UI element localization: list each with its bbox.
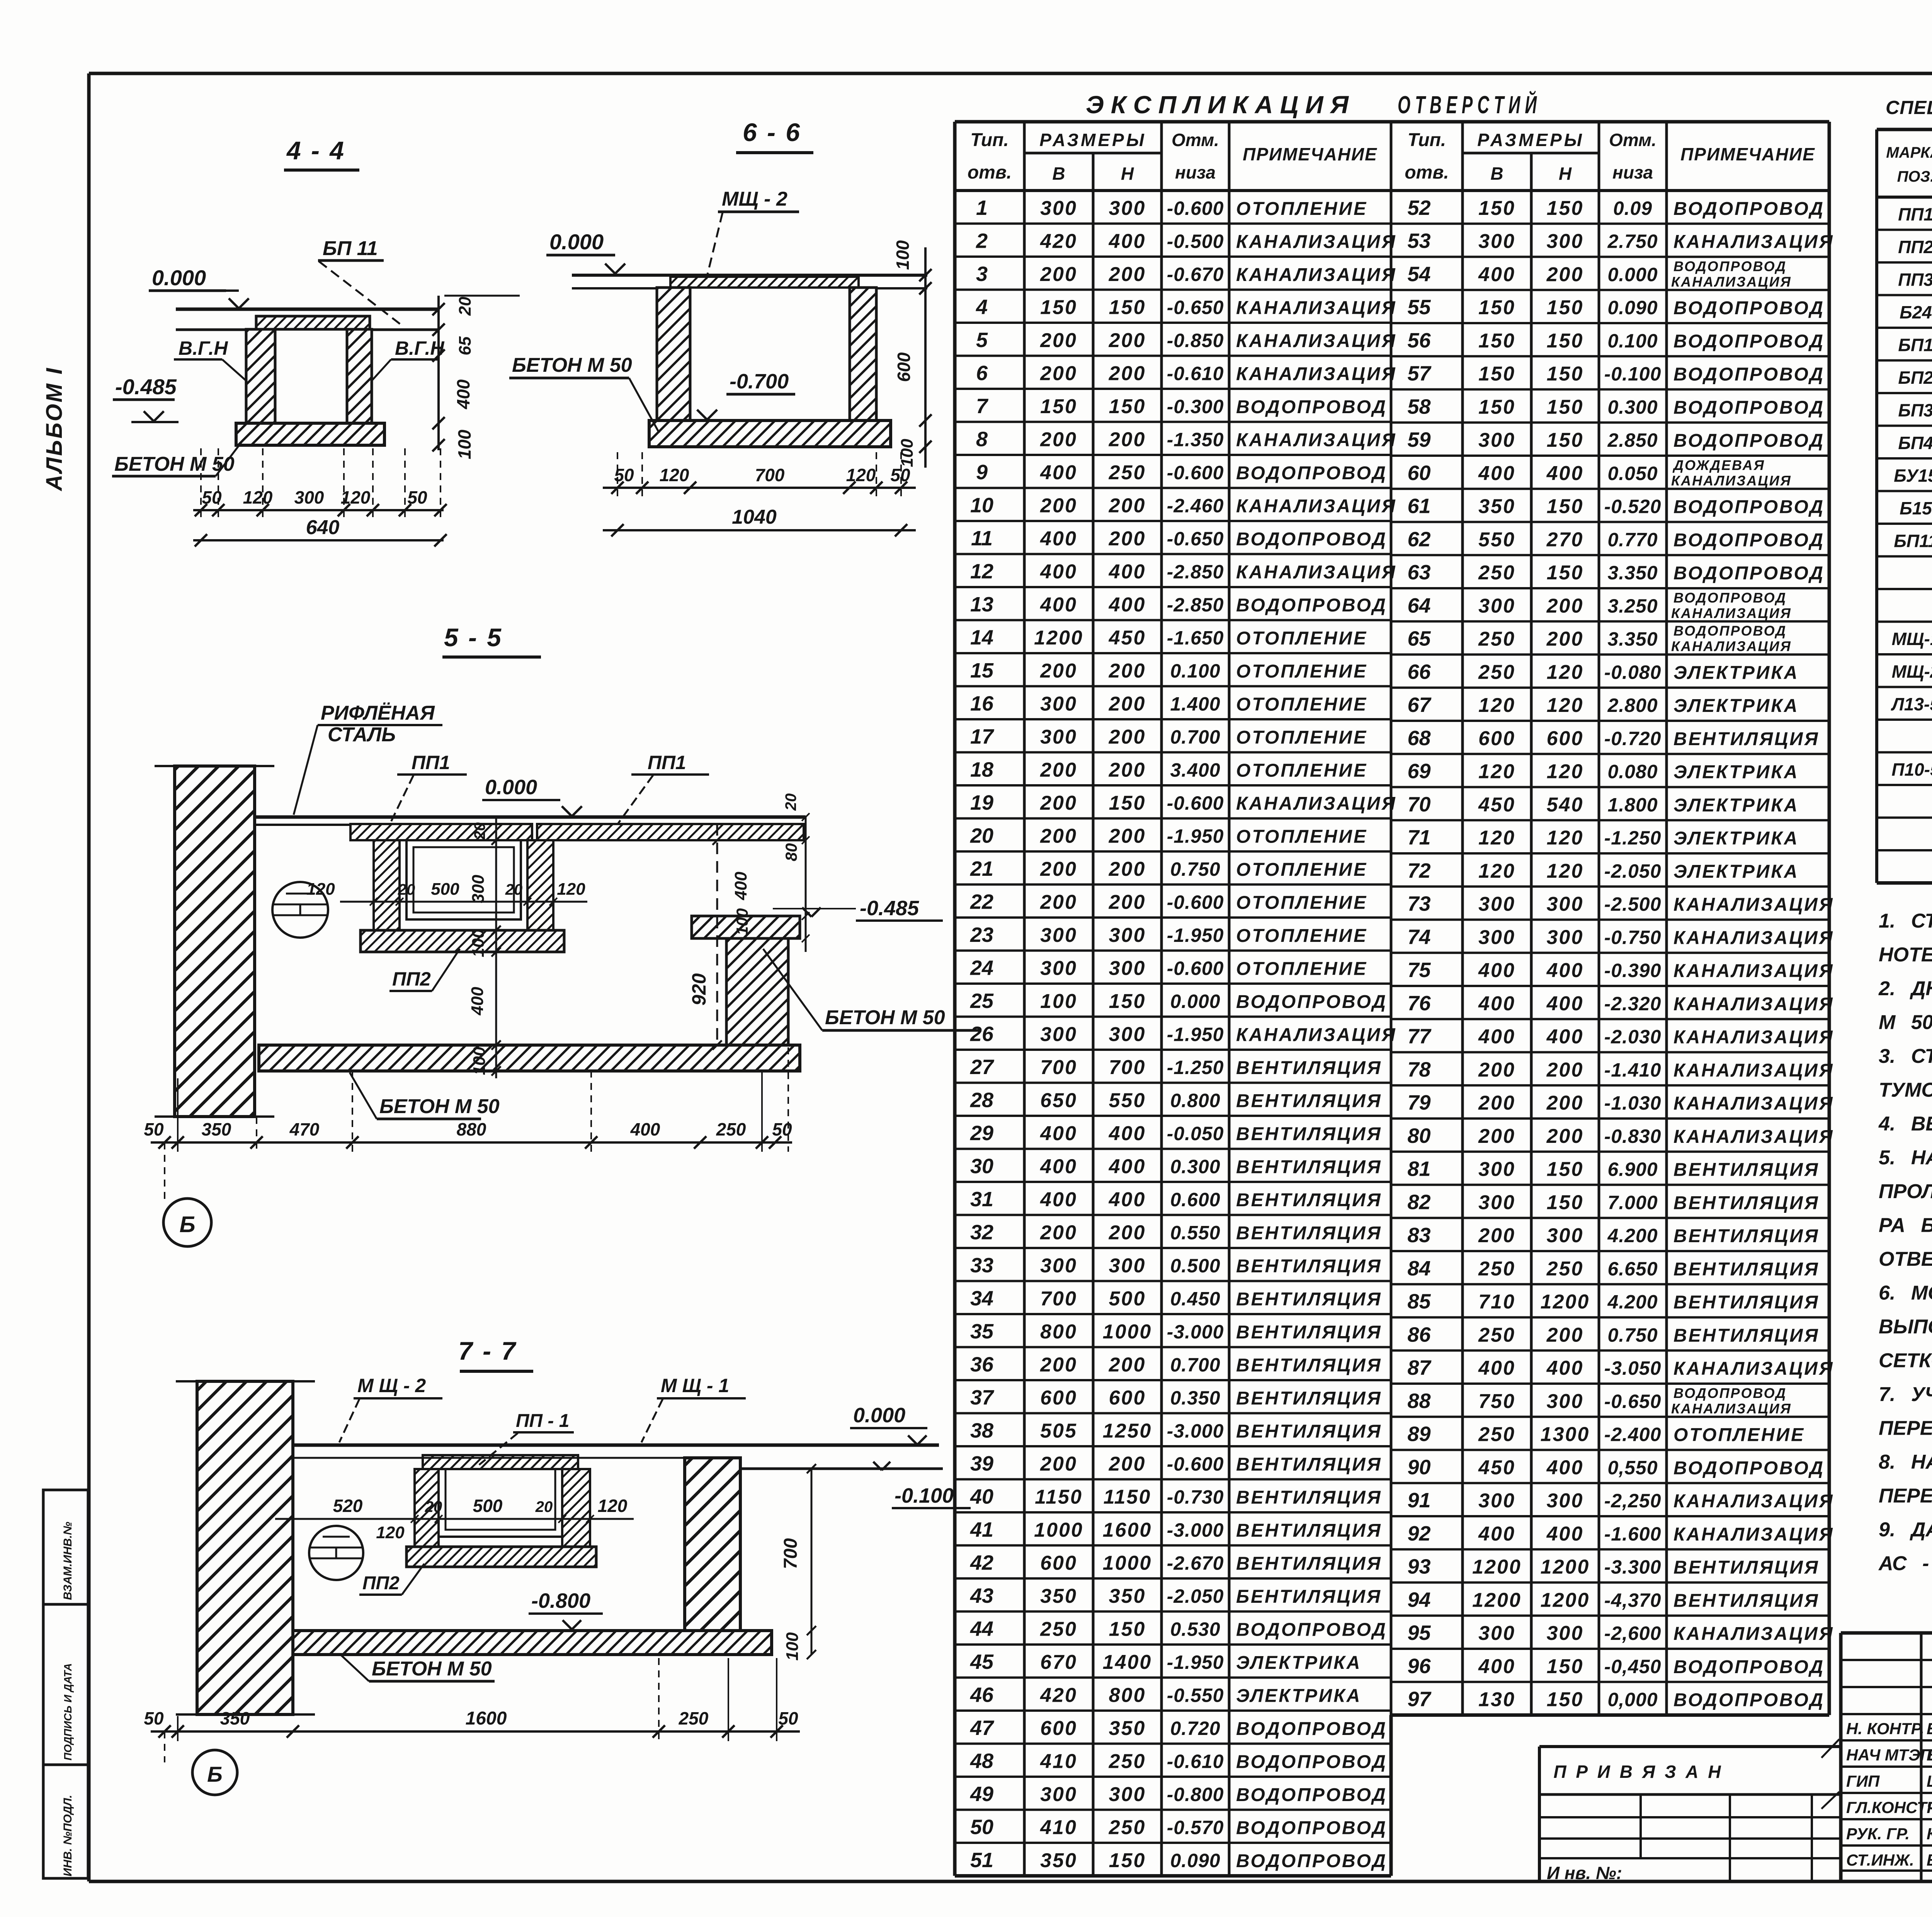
svg-text:ВЕНТИЛЯЦИЯ: ВЕНТИЛЯЦИЯ bbox=[1673, 1160, 1820, 1180]
svg-text:-2.460: -2.460 bbox=[1167, 495, 1224, 516]
svg-text:300: 300 bbox=[1478, 1490, 1515, 1512]
svg-text:1150: 1150 bbox=[1104, 1486, 1151, 1508]
svg-text:ВЕНТИЛЯЦИЯ: ВЕНТИЛЯЦИЯ bbox=[1673, 1259, 1820, 1280]
svg-text:РУК. ГР.: РУК. ГР. bbox=[1846, 1825, 1910, 1843]
svg-text:ПП2: ПП2 bbox=[1898, 237, 1932, 257]
svg-text:0.600: 0.600 bbox=[1170, 1189, 1220, 1210]
svg-text:400: 400 bbox=[1478, 1655, 1515, 1678]
svg-text:1600: 1600 bbox=[466, 1708, 507, 1729]
svg-text:50: 50 bbox=[144, 1119, 164, 1139]
svg-text:И нв. №:: И нв. №: bbox=[1547, 1863, 1622, 1883]
svg-text:0.530: 0.530 bbox=[1170, 1618, 1220, 1640]
svg-text:300: 300 bbox=[1040, 1023, 1077, 1045]
svg-text:ВОДОПРОВОД: ВОДОПРОВОД bbox=[1236, 1818, 1387, 1838]
svg-text:1200: 1200 bbox=[1541, 1589, 1590, 1611]
svg-text:33: 33 bbox=[970, 1254, 993, 1277]
section 7-7: channel lid ПП-1 (hatched) bbox=[423, 1455, 578, 1469]
svg-text:96: 96 bbox=[1407, 1655, 1431, 1678]
section 6-6: total dimension 1040 bbox=[603, 529, 916, 531]
svg-text:-0.600: -0.600 bbox=[1167, 1453, 1224, 1475]
svg-text:КАНАЛИЗАЦИЯ: КАНАЛИЗАЦИЯ bbox=[1671, 1401, 1792, 1416]
svg-text:ПП1: ПП1 bbox=[1898, 204, 1932, 224]
svg-text:14: 14 bbox=[970, 626, 993, 649]
svg-text:БЕГАНСКАЯ: БЕГАНСКАЯ bbox=[1927, 1746, 1932, 1764]
svg-text:-0.520: -0.520 bbox=[1604, 496, 1662, 518]
svg-text:0.090: 0.090 bbox=[1607, 297, 1658, 318]
svg-text:1000: 1000 bbox=[1034, 1519, 1083, 1541]
svg-text:-0.700: -0.700 bbox=[730, 370, 789, 393]
svg-text:4. ВЕНТИЛЯЦИОННЫЕ КАНАЛЫ ИЗН: 4. ВЕНТИЛЯЦИОННЫЕ КАНАЛЫ ИЗНУТРИ ШТУКАТУ… bbox=[1878, 1113, 1932, 1135]
svg-text:6.900: 6.900 bbox=[1607, 1159, 1658, 1180]
svg-text:МЩ-2: МЩ-2 bbox=[1892, 661, 1932, 681]
svg-text:1200: 1200 bbox=[1472, 1556, 1522, 1578]
svg-text:51: 51 bbox=[970, 1849, 993, 1872]
svg-text:150: 150 bbox=[1547, 396, 1584, 418]
svg-text:КАНАЛИЗАЦИЯ: КАНАЛИЗАЦИЯ bbox=[1236, 496, 1397, 516]
svg-text:ВЕНТИЛЯЦИЯ: ВЕНТИЛЯЦИЯ bbox=[1236, 1289, 1382, 1309]
svg-text:ОТОПЛЕНИЕ: ОТОПЛЕНИЕ bbox=[1236, 826, 1367, 847]
svg-text:1400: 1400 bbox=[1103, 1651, 1152, 1674]
svg-text:400: 400 bbox=[1040, 1188, 1077, 1211]
svg-text:низа: низа bbox=[1175, 162, 1216, 182]
svg-text:800: 800 bbox=[1040, 1321, 1077, 1343]
svg-text:ВОДОПРОВОД: ВОДОПРОВОД bbox=[1673, 530, 1825, 550]
svg-text:200: 200 bbox=[1109, 428, 1146, 451]
svg-text:6. МОНОЛИТНЫЕ УЧАСТКИ (ЗАШТ: 6. МОНОЛИТНЫЕ УЧАСТКИ (ЗАШТРИХОВАНЫ НА П… bbox=[1879, 1282, 1932, 1304]
svg-text:БП1: БП1 bbox=[1898, 335, 1932, 355]
svg-text:150: 150 bbox=[1109, 1849, 1146, 1872]
svg-text:МЩ - 2: МЩ - 2 bbox=[722, 188, 787, 210]
svg-text:-1.350: -1.350 bbox=[1167, 429, 1224, 450]
svg-text:М Щ - 2: М Щ - 2 bbox=[357, 1375, 426, 1396]
svg-text:2.850: 2.850 bbox=[1607, 429, 1658, 451]
svg-text:Э К С П Л И К А Ц И Я: Э К С П Л И К А Ц И Я bbox=[1086, 91, 1349, 119]
svg-text:Л13-5: Л13-5 bbox=[1891, 694, 1932, 714]
svg-text:39: 39 bbox=[970, 1452, 993, 1475]
svg-text:400: 400 bbox=[1478, 1026, 1515, 1048]
svg-text:200: 200 bbox=[1040, 362, 1077, 385]
svg-text:20: 20 bbox=[782, 793, 799, 811]
svg-text:0.720: 0.720 bbox=[1170, 1718, 1220, 1739]
svg-text:600: 600 bbox=[1547, 727, 1584, 750]
svg-text:200: 200 bbox=[1546, 263, 1584, 286]
svg-text:Б: Б bbox=[179, 1212, 195, 1237]
section 5-5: dimension 920 bbox=[716, 824, 718, 1045]
svg-text:КАНАЛИЗАЦИЯ: КАНАЛИЗАЦИЯ bbox=[1673, 1093, 1834, 1114]
svg-text:ПРИМЕЧАНИЕ: ПРИМЕЧАНИЕ bbox=[1243, 144, 1378, 164]
section 5-5: brickwork symbol circle bbox=[272, 882, 328, 938]
svg-text:200: 200 bbox=[1109, 263, 1146, 286]
svg-text:66: 66 bbox=[1407, 660, 1431, 683]
svg-text:КАНАЛИЗАЦИЯ: КАНАЛИЗАЦИЯ bbox=[1236, 793, 1397, 814]
svg-text:8. НА УКАЗАННЫХ УЧАСТКАХ: 8. НА УКАЗАННЫХ УЧАСТКАХ ПОДПОЛЬНЫЕ КАНА… bbox=[1879, 1451, 1932, 1473]
svg-text:1200: 1200 bbox=[1541, 1556, 1590, 1578]
svg-text:150: 150 bbox=[1478, 296, 1515, 319]
svg-text:600: 600 bbox=[1478, 727, 1515, 750]
svg-text:Б15: Б15 bbox=[1900, 498, 1932, 518]
svg-text:300: 300 bbox=[1547, 1490, 1584, 1512]
section 5-5: right wall below ledge (hatched) bbox=[726, 938, 788, 1045]
section 5-5: bottom concrete slab (hatched) bbox=[259, 1045, 800, 1071]
svg-text:0.300: 0.300 bbox=[1607, 396, 1658, 418]
svg-text:200: 200 bbox=[1109, 825, 1146, 847]
svg-text:ВЕНТИЛЯЦИЯ: ВЕНТИЛЯЦИЯ bbox=[1236, 1487, 1382, 1508]
svg-text:БЕТОН М 50: БЕТОН М 50 bbox=[825, 1006, 945, 1029]
section 5-5: bottom dimension chain 50/350/470/880/400/250/50 bbox=[151, 1141, 792, 1144]
svg-text:ВЕНТИЛЯЦИЯ: ВЕНТИЛЯЦИЯ bbox=[1236, 1322, 1382, 1343]
svg-text:250: 250 bbox=[716, 1119, 746, 1139]
svg-text:БП2: БП2 bbox=[1898, 368, 1932, 388]
svg-text:7: 7 bbox=[976, 395, 989, 418]
svg-text:150: 150 bbox=[1109, 1618, 1146, 1640]
svg-text:ОТОПЛЕНИЕ: ОТОПЛЕНИЕ bbox=[1236, 892, 1367, 913]
svg-text:-1.950: -1.950 bbox=[1167, 1651, 1224, 1673]
svg-text:отв.: отв. bbox=[1405, 162, 1449, 183]
svg-text:ВОДОПРОВОД: ВОДОПРОВОД bbox=[1236, 529, 1387, 550]
svg-text:0.050: 0.050 bbox=[1607, 463, 1658, 484]
svg-text:120: 120 bbox=[557, 880, 585, 899]
svg-text:500: 500 bbox=[473, 1496, 503, 1516]
svg-text:ДОЖДЕВАЯ: ДОЖДЕВАЯ bbox=[1672, 457, 1765, 473]
svg-text:-4,370: -4,370 bbox=[1604, 1589, 1662, 1611]
section 5-5: channel right wall (hatched) bbox=[527, 840, 553, 930]
section 4-4: floor slab lines bbox=[176, 308, 439, 311]
svg-text:-3.000: -3.000 bbox=[1167, 1420, 1224, 1442]
svg-text:КАНАЛИЗАЦИЯ: КАНАЛИЗАЦИЯ bbox=[1673, 1524, 1834, 1545]
svg-text:120: 120 bbox=[598, 1496, 628, 1516]
svg-text:-3.000: -3.000 bbox=[1167, 1321, 1224, 1343]
svg-text:400: 400 bbox=[1109, 560, 1146, 583]
svg-text:ВЕНТИЛЯЦИЯ: ВЕНТИЛЯЦИЯ bbox=[1236, 1157, 1382, 1177]
svg-text:150: 150 bbox=[1547, 330, 1584, 352]
svg-text:3.350: 3.350 bbox=[1607, 628, 1658, 650]
svg-text:25: 25 bbox=[970, 989, 994, 1013]
svg-text:1200: 1200 bbox=[1472, 1589, 1522, 1611]
svg-text:КАНАЛИЗАЦИЯ: КАНАЛИЗАЦИЯ bbox=[1236, 1025, 1397, 1045]
svg-text:Н: Н bbox=[1559, 163, 1572, 184]
svg-text:200: 200 bbox=[1109, 660, 1146, 682]
svg-text:700: 700 bbox=[1040, 1056, 1077, 1079]
svg-text:ПП1: ПП1 bbox=[412, 752, 450, 773]
svg-text:ПОДПИСЬ И ДАТА: ПОДПИСЬ И ДАТА bbox=[62, 1663, 74, 1760]
svg-text:РАЗМЕРЫ: РАЗМЕРЫ bbox=[1477, 130, 1584, 150]
section 6-6: right vertical dimension chain 100/600/100 bbox=[924, 247, 927, 468]
svg-text:300: 300 bbox=[1109, 1255, 1146, 1277]
svg-text:-2.400: -2.400 bbox=[1604, 1424, 1662, 1445]
section 7-7: bottom concrete slab (hatched) bbox=[293, 1631, 772, 1655]
svg-text:Б24: Б24 bbox=[1900, 302, 1932, 322]
svg-text:50: 50 bbox=[144, 1708, 164, 1728]
svg-text:80: 80 bbox=[782, 843, 800, 861]
svg-text:ЭЛЕКТРИКА: ЭЛЕКТРИКА bbox=[1673, 762, 1799, 783]
svg-text:88: 88 bbox=[1407, 1389, 1430, 1413]
svg-text:0,550: 0,550 bbox=[1607, 1457, 1658, 1478]
svg-text:47: 47 bbox=[970, 1716, 995, 1740]
svg-text:ВЕНТИЛЯЦИЯ: ВЕНТИЛЯЦИЯ bbox=[1236, 1553, 1382, 1574]
svg-text:300: 300 bbox=[1547, 230, 1584, 253]
svg-text:200: 200 bbox=[1546, 1059, 1584, 1081]
svg-text:400: 400 bbox=[1040, 461, 1077, 484]
svg-text:ВЕНТИЛЯЦИЯ: ВЕНТИЛЯЦИЯ bbox=[1673, 729, 1820, 749]
svg-text:63: 63 bbox=[1407, 561, 1430, 584]
svg-text:470: 470 bbox=[289, 1119, 320, 1139]
svg-text:0.100: 0.100 bbox=[1607, 330, 1658, 352]
svg-text:200: 200 bbox=[1109, 528, 1146, 550]
svg-text:-0,450: -0,450 bbox=[1604, 1656, 1662, 1677]
svg-text:КАНАЛИЗАЦИЯ: КАНАЛИЗАЦИЯ bbox=[1673, 1127, 1834, 1147]
svg-text:-0.850: -0.850 bbox=[1167, 330, 1224, 351]
svg-text:80: 80 bbox=[1407, 1124, 1430, 1147]
svg-text:400: 400 bbox=[1040, 560, 1077, 583]
svg-text:250: 250 bbox=[1478, 562, 1515, 584]
svg-text:150: 150 bbox=[1109, 792, 1146, 814]
svg-text:6 - 6: 6 - 6 bbox=[743, 118, 801, 146]
svg-text:300: 300 bbox=[1478, 230, 1515, 253]
svg-text:26: 26 bbox=[970, 1022, 994, 1045]
svg-text:350: 350 bbox=[202, 1119, 231, 1139]
svg-text:ВЕНТИЛЯЦИЯ: ВЕНТИЛЯЦИЯ bbox=[1236, 1256, 1382, 1277]
svg-text:БУ15: БУ15 bbox=[1894, 465, 1932, 485]
svg-text:13: 13 bbox=[970, 593, 993, 616]
svg-text:ВОДОПРОВОД: ВОДОПРОВОД bbox=[1236, 1619, 1387, 1640]
svg-text:250: 250 bbox=[1040, 1618, 1077, 1640]
svg-text:БП3: БП3 bbox=[1898, 400, 1932, 420]
svg-text:150: 150 bbox=[1547, 1158, 1584, 1181]
svg-text:200: 200 bbox=[1040, 858, 1077, 880]
svg-text:ШЕЛЕВНЛЯ: ШЕЛЕВНЛЯ bbox=[1927, 1772, 1932, 1790]
svg-text:45: 45 bbox=[970, 1650, 994, 1674]
svg-text:ВОДОПРОВОД: ВОДОПРОВОД bbox=[1236, 397, 1387, 417]
svg-text:-2.850: -2.850 bbox=[1167, 594, 1224, 616]
svg-text:270: 270 bbox=[1546, 528, 1584, 551]
svg-text:150: 150 bbox=[1109, 395, 1146, 418]
svg-text:200: 200 bbox=[1040, 263, 1077, 286]
svg-text:200: 200 bbox=[1109, 1453, 1146, 1475]
svg-text:НАЧ МТЭП: НАЧ МТЭП bbox=[1846, 1746, 1932, 1764]
svg-text:150: 150 bbox=[1547, 296, 1584, 319]
svg-text:6: 6 bbox=[976, 361, 988, 385]
svg-text:400: 400 bbox=[1478, 993, 1515, 1015]
svg-text:ВОДОПРОВОД: ВОДОПРОВОД bbox=[1673, 199, 1825, 219]
svg-text:200: 200 bbox=[1040, 494, 1077, 517]
svg-text:29: 29 bbox=[970, 1122, 993, 1145]
svg-text:ВЕНТИЛЯЦИЯ: ВЕНТИЛЯЦИЯ bbox=[1236, 1091, 1382, 1111]
svg-text:-1.030: -1.030 bbox=[1604, 1092, 1662, 1114]
svg-text:200: 200 bbox=[1109, 726, 1146, 748]
svg-text:4.200: 4.200 bbox=[1607, 1225, 1658, 1246]
svg-text:РИФЛЁНАЯ: РИФЛЁНАЯ bbox=[321, 702, 435, 724]
svg-text:78: 78 bbox=[1407, 1058, 1430, 1081]
svg-text:-0.550: -0.550 bbox=[1167, 1684, 1224, 1706]
section 7-7: left wall (hatched, with break) bbox=[197, 1381, 293, 1714]
section 5-5: left wall (hatched, with break) bbox=[175, 766, 255, 1117]
svg-text:400: 400 bbox=[1478, 1523, 1515, 1545]
svg-text:1000: 1000 bbox=[1103, 1321, 1152, 1343]
svg-text:600: 600 bbox=[1040, 1387, 1077, 1409]
svg-text:-0.100: -0.100 bbox=[895, 1484, 954, 1507]
section 7-7: channel left wall (hatched) bbox=[415, 1469, 439, 1547]
svg-text:400: 400 bbox=[1109, 230, 1146, 252]
svg-text:700: 700 bbox=[1040, 1287, 1077, 1310]
svg-text:2.750: 2.750 bbox=[1607, 231, 1658, 252]
svg-text:300: 300 bbox=[1109, 1783, 1146, 1806]
svg-text:ВОДОПРОВОД: ВОДОПРОВОД bbox=[1673, 364, 1825, 385]
svg-text:200: 200 bbox=[1040, 660, 1077, 682]
svg-text:300: 300 bbox=[1040, 1255, 1077, 1277]
svg-text:120: 120 bbox=[1547, 827, 1584, 849]
svg-text:200: 200 bbox=[1109, 891, 1146, 913]
svg-text:ЭЛЕКТРИКА: ЭЛЕКТРИКА bbox=[1673, 861, 1799, 882]
svg-text:-0.080: -0.080 bbox=[1604, 661, 1662, 683]
svg-text:200: 200 bbox=[1040, 1353, 1077, 1376]
svg-text:150: 150 bbox=[1547, 1655, 1584, 1678]
svg-text:0.750: 0.750 bbox=[1607, 1324, 1658, 1346]
svg-text:0.000: 0.000 bbox=[152, 266, 206, 290]
svg-text:73: 73 bbox=[1407, 892, 1430, 916]
svg-text:-0.830: -0.830 bbox=[1604, 1125, 1662, 1147]
svg-text:5. НАД НЕ ПЕРЕКРЫВАЕМЫМИ ПР: 5. НАД НЕ ПЕРЕКРЫВАЕМЫМИ ПРОЕМАМИ И ОТВЕ… bbox=[1879, 1147, 1932, 1169]
svg-text:20: 20 bbox=[398, 881, 415, 898]
svg-text:ПП1: ПП1 bbox=[648, 752, 686, 773]
svg-text:71: 71 bbox=[1407, 826, 1430, 849]
svg-text:2: 2 bbox=[976, 229, 988, 252]
svg-text:400: 400 bbox=[1478, 959, 1515, 982]
section 5-5: channel left wall (hatched) bbox=[374, 840, 400, 930]
svg-text:700: 700 bbox=[781, 1538, 801, 1569]
svg-text:20: 20 bbox=[456, 296, 474, 316]
svg-text:650: 650 bbox=[1040, 1089, 1077, 1112]
svg-text:42: 42 bbox=[970, 1551, 993, 1574]
svg-text:150: 150 bbox=[1478, 363, 1515, 385]
svg-text:200: 200 bbox=[1478, 1125, 1515, 1147]
svg-text:ПП3: ПП3 bbox=[1898, 269, 1932, 289]
svg-text:91: 91 bbox=[1407, 1489, 1430, 1512]
svg-text:-0.300: -0.300 bbox=[1167, 396, 1224, 417]
svg-text:300: 300 bbox=[1547, 1622, 1584, 1645]
svg-text:БЕТОН М 50: БЕТОН М 50 bbox=[372, 1658, 492, 1680]
svg-text:150: 150 bbox=[1040, 296, 1077, 318]
svg-text:56: 56 bbox=[1407, 329, 1431, 352]
svg-text:120: 120 bbox=[1478, 694, 1515, 717]
svg-text:300: 300 bbox=[1547, 1390, 1584, 1413]
svg-text:300: 300 bbox=[1478, 429, 1515, 451]
svg-text:ЭЛЕКТРИКА: ЭЛЕКТРИКА bbox=[1236, 1653, 1361, 1673]
svg-text:0.700: 0.700 bbox=[1170, 726, 1220, 748]
left inventory strip bbox=[43, 1490, 88, 1878]
svg-text:350: 350 bbox=[1478, 495, 1515, 518]
svg-text:-0.610: -0.610 bbox=[1167, 363, 1224, 384]
svg-text:200: 200 bbox=[1546, 595, 1584, 617]
svg-text:ЭЛЕКТРИКА: ЭЛЕКТРИКА bbox=[1673, 828, 1799, 849]
svg-text:300: 300 bbox=[469, 875, 488, 903]
svg-text:ВЕНТИЛЯЦИЯ: ВЕНТИЛЯЦИЯ bbox=[1673, 1590, 1820, 1611]
svg-text:-0.720: -0.720 bbox=[1604, 728, 1662, 749]
svg-text:150: 150 bbox=[1547, 363, 1584, 385]
svg-text:ГИП: ГИП bbox=[1846, 1772, 1880, 1790]
svg-text:ОТОПЛЕНИЕ: ОТОПЛЕНИЕ bbox=[1236, 860, 1367, 880]
svg-text:400: 400 bbox=[1546, 959, 1584, 982]
svg-text:БП11: БП11 bbox=[1894, 531, 1932, 551]
svg-text:48: 48 bbox=[970, 1749, 993, 1772]
svg-text:-2.670: -2.670 bbox=[1167, 1552, 1224, 1574]
svg-text:60: 60 bbox=[1407, 461, 1430, 485]
svg-text:300: 300 bbox=[1040, 1783, 1077, 1806]
svg-text:120: 120 bbox=[306, 880, 335, 899]
svg-text:81: 81 bbox=[1407, 1158, 1430, 1181]
svg-text:400: 400 bbox=[1546, 993, 1584, 1015]
svg-text:Тип.: Тип. bbox=[1408, 130, 1446, 150]
svg-text:ПП - 1: ПП - 1 bbox=[516, 1411, 569, 1431]
svg-text:ПП2: ПП2 bbox=[392, 968, 431, 990]
svg-text:0.000: 0.000 bbox=[1170, 991, 1220, 1012]
svg-text:П10-5: П10-5 bbox=[1891, 759, 1932, 780]
svg-text:-0.485: -0.485 bbox=[115, 375, 177, 399]
svg-text:300: 300 bbox=[1478, 893, 1515, 916]
svg-text:100: 100 bbox=[893, 240, 913, 270]
section 4-4: lintel slab БП11 (hatched) bbox=[256, 316, 370, 329]
svg-text:97: 97 bbox=[1407, 1688, 1432, 1711]
svg-text:ПЕРЕКРЫВАТЬ ДЕРЕВЯННЫМИ Щ: ПЕРЕКРЫВАТЬ ДЕРЕВЯННЫМИ ЩИТАМИ. bbox=[1879, 1417, 1932, 1440]
svg-text:150: 150 bbox=[1547, 197, 1584, 220]
svg-text:ОТОПЛЕНИЕ: ОТОПЛЕНИЕ bbox=[1673, 1425, 1805, 1445]
svg-text:90: 90 bbox=[1407, 1456, 1430, 1479]
section 5-5: channel inner lining bbox=[406, 840, 521, 919]
svg-text:64: 64 bbox=[1407, 594, 1430, 617]
svg-text:КАНАЛИЗАЦИЯ: КАНАЛИЗАЦИЯ bbox=[1673, 232, 1834, 252]
svg-text:300: 300 bbox=[1478, 1191, 1515, 1214]
svg-text:400: 400 bbox=[1109, 594, 1146, 616]
svg-text:МАРКА,: МАРКА, bbox=[1886, 144, 1932, 161]
svg-text:40: 40 bbox=[970, 1485, 993, 1508]
svg-text:5: 5 bbox=[976, 329, 988, 352]
svg-text:120: 120 bbox=[341, 487, 371, 507]
svg-text:400: 400 bbox=[1109, 1188, 1146, 1211]
svg-text:200: 200 bbox=[1546, 1324, 1584, 1346]
svg-text:49: 49 bbox=[970, 1783, 993, 1806]
svg-text:43: 43 bbox=[970, 1584, 993, 1607]
svg-text:-0.100: -0.100 bbox=[1604, 363, 1662, 385]
svg-text:ОТОПЛЕНИЕ: ОТОПЛЕНИЕ bbox=[1236, 760, 1367, 781]
svg-text:ВЕНТИЛЯЦИЯ: ВЕНТИЛЯЦИЯ bbox=[1236, 1223, 1382, 1243]
svg-text:200: 200 bbox=[1040, 1221, 1077, 1244]
svg-text:600: 600 bbox=[1040, 1552, 1077, 1574]
section 4-4: left brick wall (hatched) bbox=[246, 329, 275, 423]
svg-text:400: 400 bbox=[1040, 594, 1077, 616]
svg-text:ЭЛЕКТРИКА: ЭЛЕКТРИКА bbox=[1673, 662, 1799, 683]
svg-text:20: 20 bbox=[471, 822, 488, 840]
svg-text:300: 300 bbox=[1547, 893, 1584, 916]
svg-text:КАНАЛИЗАЦИЯ: КАНАЛИЗАЦИЯ bbox=[1673, 928, 1834, 948]
svg-text:400: 400 bbox=[453, 379, 473, 409]
svg-text:ВОДОПРОВОД: ВОДОПРОВОД bbox=[1236, 1752, 1387, 1772]
svg-text:-1.600: -1.600 bbox=[1604, 1523, 1662, 1545]
svg-text:ЭЛЕКТРИКА: ЭЛЕКТРИКА bbox=[1673, 795, 1799, 815]
svg-text:КАНАЛИЗАЦИЯ: КАНАЛИЗАЦИЯ bbox=[1671, 274, 1792, 289]
svg-text:-1.650: -1.650 bbox=[1167, 627, 1224, 649]
svg-text:120: 120 bbox=[660, 465, 689, 485]
svg-text:750: 750 bbox=[1478, 1390, 1515, 1413]
svg-text:150: 150 bbox=[1547, 495, 1584, 518]
svg-text:БП 11: БП 11 bbox=[323, 237, 378, 260]
svg-text:0.09: 0.09 bbox=[1613, 197, 1652, 219]
svg-text:0.450: 0.450 bbox=[1170, 1288, 1220, 1309]
svg-text:100: 100 bbox=[783, 1632, 802, 1661]
section 7-7: brickwork symbol circle bbox=[309, 1526, 363, 1580]
svg-text:67: 67 bbox=[1407, 693, 1432, 717]
svg-text:800: 800 bbox=[1109, 1684, 1146, 1706]
svg-text:12: 12 bbox=[970, 560, 993, 583]
svg-text:20: 20 bbox=[970, 824, 993, 847]
